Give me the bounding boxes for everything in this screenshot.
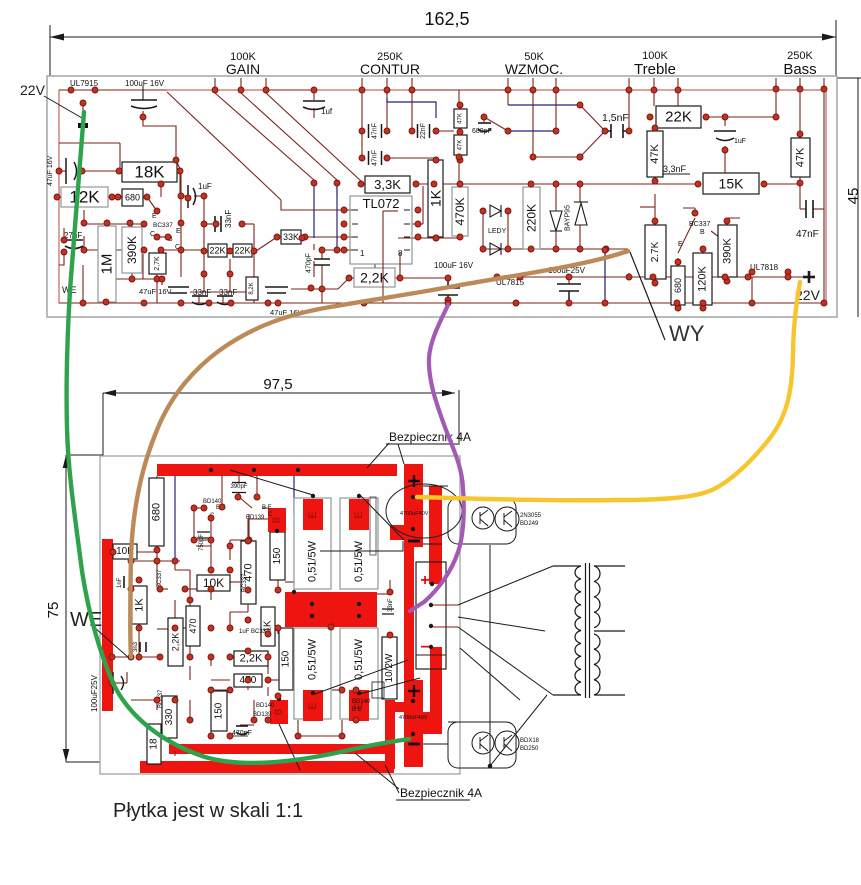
central copper block bbox=[285, 592, 377, 627]
resistor 2,7K bbox=[149, 253, 166, 274]
svg-text:22K: 22K bbox=[234, 246, 250, 256]
copper narrow bus below top block bbox=[404, 547, 414, 680]
svg-text:CONTUR: CONTUR bbox=[360, 61, 420, 77]
pads top board bbox=[54, 86, 827, 311]
svg-text:−: − bbox=[420, 639, 429, 656]
svg-text:100uF25V: 100uF25V bbox=[90, 674, 99, 712]
label WY with pointer bbox=[630, 252, 665, 340]
svg-text:470pF: 470pF bbox=[306, 253, 313, 273]
svg-text:97,5: 97,5 bbox=[263, 376, 292, 393]
resistor 470 pcb a bbox=[186, 606, 200, 646]
dimension 75 bbox=[66, 455, 103, 762]
resistor 3,3K bbox=[365, 176, 410, 193]
svg-text:33nF: 33nF bbox=[224, 210, 233, 228]
svg-text:22nF: 22nF bbox=[420, 123, 427, 139]
svg-text:15K: 15K bbox=[719, 176, 745, 192]
svg-text:1uF: 1uF bbox=[198, 182, 212, 191]
svg-text:BAYP95: BAYP95 bbox=[565, 205, 572, 231]
right height dimension bbox=[836, 78, 861, 317]
purple jumper wire bbox=[410, 305, 464, 611]
big filter capacitor outline top bbox=[386, 484, 462, 538]
svg-text:3,3nF: 3,3nF bbox=[663, 164, 687, 174]
transistor 2N3055/BD249 bbox=[423, 486, 519, 544]
resistor 10/2W bbox=[382, 637, 397, 699]
svg-text:47K: 47K bbox=[649, 144, 661, 164]
svg-text:2N3055: 2N3055 bbox=[520, 513, 542, 519]
svg-text:E: E bbox=[307, 702, 319, 709]
wire op-amp feedback over boxes bbox=[383, 211, 400, 303]
svg-text:33K: 33K bbox=[283, 232, 299, 242]
svg-text:2.7K: 2.7K bbox=[650, 241, 661, 262]
solder dots bbox=[173, 468, 492, 768]
svg-text:WE: WE bbox=[70, 609, 102, 631]
copper pour top rail bbox=[157, 464, 397, 476]
svg-text:BD140: BD140 bbox=[256, 703, 275, 709]
svg-text:E: E bbox=[353, 511, 365, 518]
pads bottom board bbox=[109, 494, 393, 739]
resistor 2.7K right bbox=[645, 225, 666, 279]
wires bottom board bbox=[112, 475, 390, 764]
wire to bottom transistor bbox=[490, 545, 547, 766]
polarity marks top capacitor 4700uF bbox=[408, 475, 420, 487]
svg-text:1,5nF: 1,5nF bbox=[602, 112, 629, 124]
resistor 18 pcb bbox=[147, 724, 161, 764]
leader lines transistors to pads bbox=[230, 470, 420, 770]
svg-text:E: E bbox=[176, 228, 181, 235]
svg-text:3n3: 3n3 bbox=[133, 641, 139, 652]
svg-text:4700uF40V: 4700uF40V bbox=[399, 715, 428, 721]
svg-text:33nF: 33nF bbox=[388, 598, 394, 612]
svg-text:100uF 16V: 100uF 16V bbox=[434, 261, 474, 270]
green jumper wire WE bbox=[67, 112, 409, 763]
svg-text:22K: 22K bbox=[665, 109, 692, 126]
svg-text:100uF 16V: 100uF 16V bbox=[125, 79, 165, 88]
svg-text:BC337: BC337 bbox=[157, 569, 163, 588]
svg-text:B E: B E bbox=[352, 707, 362, 713]
base pad B top bbox=[268, 508, 286, 532]
resistor 1M bbox=[98, 226, 116, 302]
transistor BDX18/BD250 bbox=[423, 722, 519, 768]
svg-text:0,51/5W: 0,51/5W bbox=[307, 540, 319, 582]
resistor 150 pcb a bbox=[270, 532, 285, 580]
resistor 1K pcb b bbox=[261, 607, 275, 646]
resistor 330 pcb bbox=[162, 696, 177, 738]
emitter pad E2 top bbox=[349, 499, 369, 530]
navy wires top board bbox=[314, 98, 605, 303]
svg-text:330: 330 bbox=[164, 708, 175, 725]
fuse holder outline bottom bbox=[372, 682, 384, 698]
svg-text:47nF: 47nF bbox=[372, 150, 379, 166]
resistor 150 pcb b bbox=[279, 628, 293, 690]
dimension 97,5 bbox=[103, 390, 459, 456]
svg-text:BD250: BD250 bbox=[520, 746, 539, 752]
svg-text:47uF 16V: 47uF 16V bbox=[139, 287, 172, 296]
svg-text:1M: 1M bbox=[99, 254, 116, 275]
svg-text:470: 470 bbox=[188, 618, 198, 633]
resistor 15K bbox=[703, 173, 759, 194]
svg-text:Bass: Bass bbox=[783, 61, 816, 78]
capacitors 47K wzmoc small boxes bbox=[454, 109, 467, 128]
svg-text:BD140: BD140 bbox=[352, 699, 371, 705]
svg-text:22V: 22V bbox=[20, 82, 46, 98]
resistor 8,2K bbox=[246, 277, 258, 300]
svg-text:Treble: Treble bbox=[634, 61, 676, 78]
brown jumper wire bbox=[130, 251, 628, 657]
capacitors 47nF contur bbox=[369, 124, 382, 138]
svg-text:680: 680 bbox=[673, 278, 683, 293]
svg-text:B: B bbox=[272, 516, 283, 523]
svg-text:BD249: BD249 bbox=[520, 521, 539, 527]
top board copper frame bbox=[59, 90, 826, 303]
svg-text:162,5: 162,5 bbox=[424, 9, 469, 29]
resistor 680 pcb bbox=[149, 478, 164, 546]
svg-text:150: 150 bbox=[281, 650, 292, 667]
dimension 162,5 top bbox=[50, 20, 836, 76]
svg-text:680: 680 bbox=[125, 193, 140, 203]
bottom board outline bbox=[100, 456, 460, 774]
resistor 12K bbox=[61, 187, 108, 207]
svg-text:1: 1 bbox=[360, 249, 365, 258]
svg-text:B E: B E bbox=[262, 505, 272, 511]
svg-text:WZMOC.: WZMOC. bbox=[505, 61, 563, 77]
emitter pad E1 bottom bbox=[303, 690, 323, 721]
LED pair LEDY bbox=[490, 205, 501, 255]
svg-text:Bezpiecznik 4A: Bezpiecznik 4A bbox=[389, 430, 471, 444]
svg-text:470K: 470K bbox=[453, 197, 467, 225]
capacitor 390pF bbox=[232, 483, 246, 493]
power resistor 0,51/5W c bbox=[294, 628, 331, 719]
svg-text:0,51/5W: 0,51/5W bbox=[353, 638, 365, 680]
svg-text:E: E bbox=[307, 511, 319, 518]
svg-text:BC337: BC337 bbox=[689, 221, 711, 228]
svg-text:47K: 47K bbox=[458, 113, 464, 124]
svg-text:120K: 120K bbox=[697, 265, 709, 291]
svg-text:47K: 47K bbox=[458, 140, 464, 151]
speaker connector box bbox=[416, 562, 446, 669]
copper pour left rail bbox=[102, 539, 113, 711]
svg-text:18K: 18K bbox=[134, 163, 165, 182]
svg-text:B: B bbox=[700, 229, 705, 236]
resistor 470 pcb b bbox=[241, 541, 256, 604]
wires top board left section bbox=[57, 78, 826, 303]
yellow jumper wire bbox=[417, 282, 800, 500]
copper pour bottom rail main bbox=[140, 761, 394, 773]
svg-text:150: 150 bbox=[272, 547, 283, 564]
svg-text:+: + bbox=[420, 572, 429, 589]
svg-text:B: B bbox=[274, 708, 285, 715]
capacitor 750pF bbox=[197, 532, 210, 538]
resistor 10K pcb b bbox=[197, 575, 230, 591]
resistor 120K right bbox=[693, 253, 712, 305]
resistor 1K pcb a bbox=[132, 586, 147, 624]
svg-text:0,51/5W: 0,51/5W bbox=[353, 540, 365, 582]
resistor 18K bbox=[122, 162, 177, 182]
power resistor 0,51/5W d bbox=[340, 628, 378, 719]
copper negative supply block bottom bbox=[404, 680, 423, 767]
svg-text:1K: 1K bbox=[428, 189, 444, 207]
copper right bus lower bbox=[430, 647, 442, 712]
polarity marks bottom capacitor 4700uF bbox=[408, 685, 420, 697]
svg-text:47K: 47K bbox=[795, 147, 807, 167]
svg-text:1uF: 1uF bbox=[734, 138, 746, 145]
resistor 22K b bbox=[233, 244, 252, 257]
svg-text:BD139: BD139 bbox=[246, 515, 265, 521]
svg-text:45: 45 bbox=[845, 188, 861, 205]
svg-text:TL072: TL072 bbox=[363, 196, 400, 211]
resistor 470 pcb c bbox=[234, 674, 262, 687]
capacitor 22nF bbox=[418, 124, 430, 138]
resistor 47K bass bbox=[791, 138, 810, 177]
fuse holder outline top bbox=[370, 497, 376, 555]
svg-text:0,51/5W: 0,51/5W bbox=[307, 638, 319, 680]
svg-text:1nF: 1nF bbox=[117, 577, 123, 588]
svg-text:2,2K: 2,2K bbox=[240, 653, 263, 665]
svg-text:2,7K: 2,7K bbox=[154, 256, 161, 271]
svg-text:18: 18 bbox=[149, 738, 160, 750]
power resistor 0,51/5W b bbox=[340, 498, 378, 589]
resistor 47K treble bbox=[647, 131, 663, 177]
svg-text:Bezpiecznik 4A: Bezpiecznik 4A bbox=[400, 786, 482, 800]
svg-text:3,3K: 3,3K bbox=[374, 177, 401, 192]
svg-text:1K: 1K bbox=[134, 598, 146, 612]
svg-text:75: 75 bbox=[45, 602, 62, 619]
svg-text:GAIN: GAIN bbox=[226, 61, 260, 77]
node +22V right bbox=[803, 271, 815, 283]
svg-text:47nF: 47nF bbox=[796, 229, 819, 240]
svg-text:2,2K: 2,2K bbox=[360, 270, 389, 286]
svg-text:22K: 22K bbox=[209, 246, 225, 256]
resistor 22K a bbox=[208, 244, 227, 257]
resistor 680 right bbox=[671, 266, 685, 305]
svg-text:750pF: 750pF bbox=[199, 534, 205, 551]
wires top board right section bbox=[460, 89, 824, 308]
svg-text:680: 680 bbox=[151, 503, 163, 521]
svg-text:2,2K: 2,2K bbox=[171, 633, 181, 652]
resistor 220K bbox=[523, 187, 540, 249]
svg-text:Płytka jest w skali 1:1: Płytka jest w skali 1:1 bbox=[113, 800, 303, 822]
copper right bus upper bbox=[429, 486, 442, 584]
svg-text:4700uF40V: 4700uF40V bbox=[400, 511, 429, 517]
svg-text:BC337: BC337 bbox=[153, 222, 173, 229]
resistor 1K bbox=[428, 160, 444, 237]
svg-text:12K: 12K bbox=[69, 188, 100, 207]
base pad B bottom bbox=[270, 700, 288, 724]
leader lines to transformer bbox=[458, 566, 553, 700]
emitter pad E2 bottom bbox=[349, 690, 369, 721]
power resistor 0,51/5W a bbox=[294, 498, 331, 589]
svg-text:LEDY: LEDY bbox=[488, 228, 507, 235]
svg-text:47uF 16V: 47uF 16V bbox=[47, 155, 54, 186]
resistor 2,2K bbox=[354, 268, 395, 287]
svg-text:C: C bbox=[268, 512, 273, 518]
svg-text:BDX18: BDX18 bbox=[520, 738, 540, 744]
resistor 10K pcb a bbox=[113, 544, 137, 559]
emitter pad E1 top bbox=[303, 499, 323, 530]
svg-text:390K: 390K bbox=[125, 236, 139, 264]
op-amp U1 TL072 bbox=[350, 196, 412, 264]
copper positive supply block top bbox=[404, 464, 423, 547]
copper pour bottom rail thin bbox=[169, 744, 386, 754]
navy wire bottom board bbox=[174, 476, 176, 561]
svg-text:220K: 220K bbox=[525, 204, 539, 232]
resistor 2,2K pcb b bbox=[234, 651, 268, 666]
svg-text:E: E bbox=[678, 241, 683, 248]
resistor 2,2K pcb a bbox=[168, 618, 183, 666]
resistor 22K treble bbox=[656, 106, 701, 128]
resistor 470K bbox=[452, 187, 468, 236]
svg-text:390K: 390K bbox=[722, 237, 734, 263]
svg-text:47nF: 47nF bbox=[372, 123, 379, 139]
resistor 390K right bbox=[718, 225, 737, 277]
transformer bbox=[553, 563, 625, 698]
svg-text:150: 150 bbox=[214, 702, 225, 719]
svg-text:390pF: 390pF bbox=[230, 484, 247, 490]
copper staircase to bottom rail bbox=[385, 700, 395, 769]
top board outline bbox=[47, 76, 837, 317]
resistor 150 pcb c bbox=[211, 691, 227, 731]
svg-text:8,2K: 8,2K bbox=[249, 282, 255, 294]
resistor 680 bbox=[122, 189, 143, 206]
resistor 33K bbox=[281, 230, 301, 244]
resistor 390K bbox=[122, 227, 142, 273]
svg-text:WY: WY bbox=[669, 321, 705, 346]
